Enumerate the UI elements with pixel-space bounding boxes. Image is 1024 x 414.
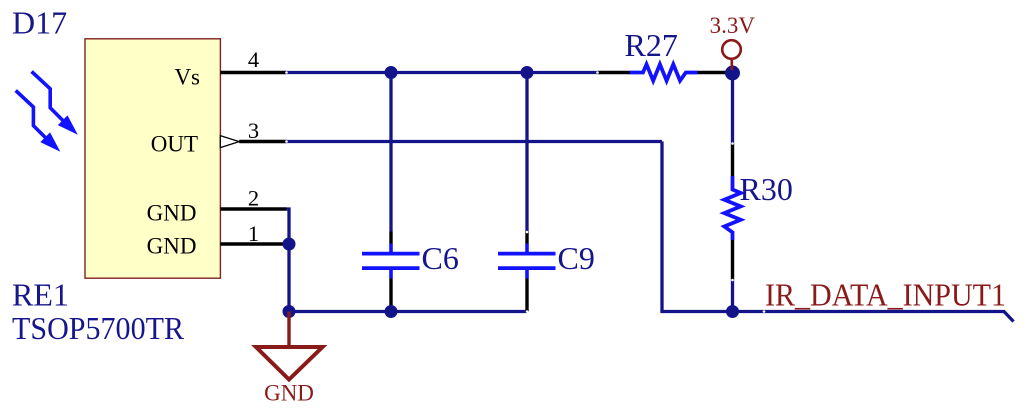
svg-text:1: 1 — [248, 221, 259, 246]
svg-text:3.3V: 3.3V — [710, 13, 756, 38]
svg-text:C9: C9 — [558, 240, 595, 276]
svg-text:GND: GND — [147, 233, 197, 258]
pin 2 (GND) — [220, 207, 286, 210]
component body RE1 (yellow box) — [85, 39, 220, 278]
svg-text:Vs: Vs — [174, 65, 200, 90]
IR light arrowhead A1 — [60, 117, 76, 133]
wire end tick pin4 — [285, 71, 288, 74]
svg-text:R30: R30 — [740, 171, 793, 207]
capacitor C9 bottom pin — [525, 279, 528, 312]
pin 1 (GND) — [220, 242, 286, 245]
svg-text:RE1: RE1 — [12, 277, 69, 313]
resistor R30 body — [724, 176, 740, 240]
junction dot GND corner — [283, 305, 296, 318]
capacitor C6 bottom pin — [389, 279, 392, 312]
wire R30 bottom vertical — [731, 280, 734, 312]
ground symbol triangle — [256, 347, 323, 380]
capacitor C9 body — [498, 244, 556, 279]
svg-text:R27: R27 — [625, 27, 678, 63]
wire end tick C9 bottom — [526, 310, 529, 313]
wire C6 top vertical — [389, 73, 392, 232]
resistor R30 top pin — [731, 144, 734, 177]
wire OUT net bottom horizontal to edge — [660, 312, 1013, 322]
wire OUT net vertical — [660, 142, 663, 312]
IR light arrowhead A2 — [42, 134, 58, 150]
ground symbol stub — [287, 312, 290, 347]
wire end tick C9 top lead — [526, 231, 529, 234]
svg-text:3: 3 — [248, 118, 259, 143]
junction dot C6 top — [385, 66, 398, 79]
svg-text:TSOP5700TR: TSOP5700TR — [12, 310, 185, 346]
capacitor C6 top pin — [389, 232, 392, 244]
pin 3 output triangle — [220, 136, 239, 148]
wire end tick R27 left — [596, 71, 599, 74]
pin 4 (Vs) — [220, 71, 286, 74]
power port 3.3V stub — [730, 59, 733, 70]
wire R30 top vertical — [731, 73, 734, 144]
wire end tick R30 bottom — [731, 279, 734, 282]
wire GND net bottom horizontal — [289, 310, 527, 313]
junction dot pin1 — [283, 238, 296, 251]
junction dot C6 bottom — [385, 305, 398, 318]
svg-text:2: 2 — [248, 186, 259, 211]
capacitor C9 top pin — [525, 232, 528, 244]
resistor R27 body — [630, 64, 698, 80]
IR light arrow A2 — [16, 91, 48, 140]
junction dot R30 bottom — [726, 305, 739, 318]
resistor R27 left pin — [598, 71, 631, 74]
wire Vs net horizontal — [287, 71, 598, 74]
capacitor C6 body — [362, 244, 420, 279]
pin 3 (OUT) — [239, 140, 286, 143]
svg-text:GND: GND — [264, 381, 314, 406]
junction dot C9 top — [521, 66, 534, 79]
wire GND net vertical — [287, 209, 290, 312]
wire end tick R30 top — [731, 142, 734, 145]
wire C9 top vertical — [525, 73, 528, 232]
wire end tick IR wire — [763, 310, 766, 313]
IR light arrow A1 — [32, 72, 65, 123]
svg-text:C6: C6 — [422, 240, 459, 276]
wire end tick pin3 — [285, 140, 288, 143]
junction dot 3.3V node — [725, 66, 740, 81]
svg-text:4: 4 — [248, 47, 259, 72]
resistor R27 right pin — [698, 71, 733, 74]
wire pin1 stub — [287, 242, 290, 245]
svg-text:IR_DATA_INPUT1: IR_DATA_INPUT1 — [765, 277, 1006, 313]
power port 3.3V circle — [722, 40, 741, 59]
svg-text:D17: D17 — [12, 5, 67, 41]
svg-text:OUT: OUT — [151, 132, 198, 157]
wire OUT net horizontal from pin — [287, 140, 663, 143]
resistor R30 bottom pin — [731, 240, 734, 280]
svg-text:GND: GND — [147, 200, 197, 225]
